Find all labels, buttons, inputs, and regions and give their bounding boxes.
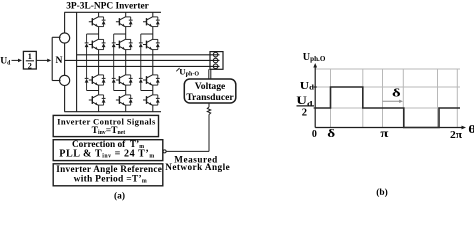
svg-text:0: 0 bbox=[312, 129, 317, 140]
svg-text:π: π bbox=[380, 126, 389, 139]
svg-text:(b): (b) bbox=[376, 187, 387, 198]
svg-text:Inverter Control Signals: Inverter Control Signals bbox=[57, 116, 156, 126]
svg-text:Inverter Angle Reference: Inverter Angle Reference bbox=[56, 164, 162, 174]
svg-text:3P-3L-NPC Inverter: 3P-3L-NPC Inverter bbox=[66, 1, 149, 11]
svg-text:N: N bbox=[56, 55, 63, 66]
svg-text:Transducer: Transducer bbox=[186, 92, 234, 103]
svg-text:δ: δ bbox=[327, 127, 335, 140]
svg-text:2π: 2π bbox=[450, 129, 462, 140]
svg-text:δ: δ bbox=[392, 87, 401, 100]
svg-text:2: 2 bbox=[28, 62, 32, 71]
svg-text:θ: θ bbox=[468, 122, 474, 135]
svg-text:1: 1 bbox=[28, 52, 32, 61]
svg-text:Network Angle: Network Angle bbox=[165, 162, 230, 172]
svg-text:Voltage: Voltage bbox=[195, 81, 226, 92]
svg-text:with Period =T’m: with Period =T’m bbox=[74, 175, 147, 185]
svg-text:2: 2 bbox=[302, 108, 307, 119]
svg-text:(a): (a) bbox=[114, 191, 125, 202]
